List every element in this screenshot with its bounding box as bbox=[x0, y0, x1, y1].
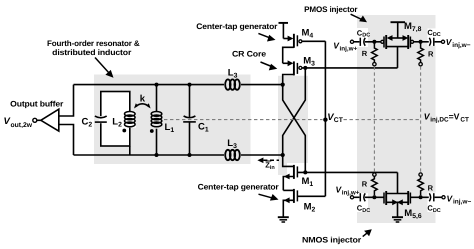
svg-text:k: k bbox=[140, 93, 146, 104]
svg-text:Fourth-order resonator &: Fourth-order resonator & bbox=[47, 39, 140, 48]
svg-text:R: R bbox=[362, 49, 368, 58]
svg-text:=V: =V bbox=[449, 112, 460, 122]
svg-text:distributed inductor: distributed inductor bbox=[52, 48, 131, 57]
svg-text:inj,w−: inj,w− bbox=[452, 42, 470, 49]
svg-text:inj,w+: inj,w+ bbox=[342, 190, 360, 197]
svg-text:R: R bbox=[428, 50, 434, 59]
svg-text:CT: CT bbox=[334, 117, 344, 124]
svg-text:PMOS injector: PMOS injector bbox=[304, 5, 357, 14]
svg-text:inj,DC: inj,DC bbox=[430, 117, 449, 124]
svg-text:V: V bbox=[4, 116, 11, 127]
svg-text:inj,w+: inj,w+ bbox=[340, 45, 358, 52]
svg-text:CT: CT bbox=[460, 117, 469, 124]
svg-text:Center-tap generator: Center-tap generator bbox=[198, 183, 279, 192]
svg-text:NMOS injector: NMOS injector bbox=[302, 236, 361, 245]
svg-text:R: R bbox=[428, 184, 434, 193]
svg-text:out,2w: out,2w bbox=[11, 122, 33, 129]
svg-text:inj,w−: inj,w− bbox=[453, 198, 471, 205]
svg-text:Center-tap generator: Center-tap generator bbox=[196, 22, 277, 31]
svg-text:Output buffer: Output buffer bbox=[10, 99, 63, 108]
svg-text:CR Core: CR Core bbox=[232, 50, 267, 59]
svg-text:R: R bbox=[362, 179, 368, 188]
